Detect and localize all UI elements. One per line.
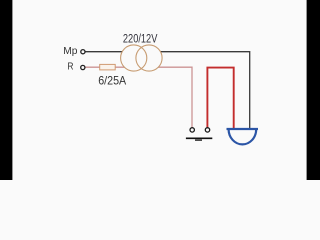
svg-text:220/12V: 220/12V	[123, 32, 158, 46]
push-button S1 bridge bar	[186, 137, 212, 139]
fuse F1 6/25A	[100, 64, 116, 70]
wire push-button right terminal up over to bell (red)	[207, 68, 233, 129]
bell B1	[227, 129, 259, 144]
terminal Mp	[81, 50, 85, 54]
svg-text:R: R	[67, 61, 73, 73]
push-button S1 actuator stem	[195, 139, 202, 141]
terminal R	[81, 65, 85, 69]
left black pillar	[0, 0, 12, 180]
wire Mp (neutral) horizontal + down to bell	[85, 52, 249, 129]
right black pillar	[307, 0, 320, 180]
push-button S1 terminal right	[205, 128, 209, 132]
svg-text:Mp: Mp	[63, 45, 77, 57]
transformer U1 220/12V	[121, 45, 162, 71]
push-button S1 terminal left	[190, 128, 194, 132]
wire R (phase) through fuse to transformer then to push-button left terminal	[86, 67, 193, 127]
svg-text:6/25A: 6/25A	[98, 74, 126, 88]
